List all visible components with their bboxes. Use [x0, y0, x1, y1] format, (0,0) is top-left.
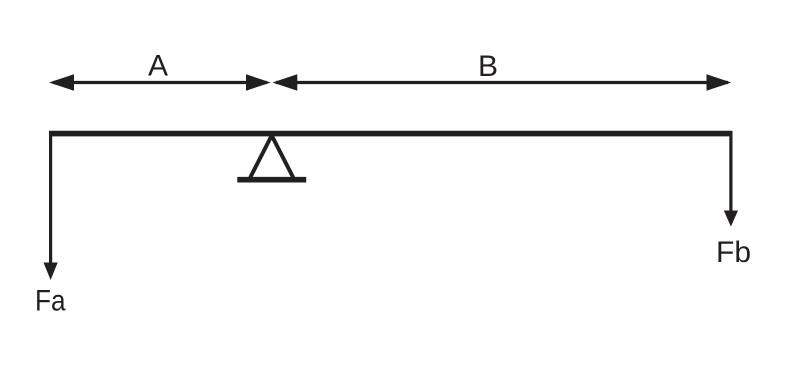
svg-text:Fb: Fb	[716, 236, 751, 269]
force arrow Fb	[724, 131, 738, 227]
svg-text:B: B	[478, 50, 498, 83]
svg-text:A: A	[148, 50, 168, 83]
fulcrum triangle	[250, 136, 293, 178]
beam	[49, 131, 732, 137]
svg-text:Fa: Fa	[35, 285, 66, 318]
dimension line A	[49, 74, 271, 90]
dimension line B	[273, 74, 732, 90]
force arrow Fa	[44, 131, 58, 280]
fulcrum base	[237, 177, 306, 183]
